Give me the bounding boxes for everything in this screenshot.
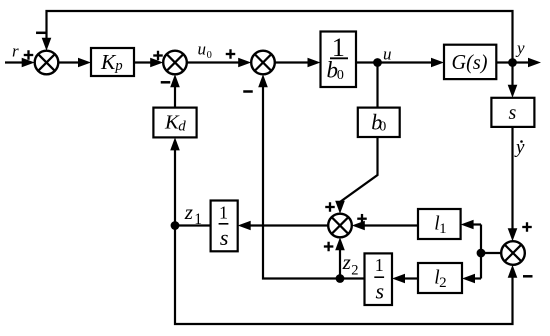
svg-text:0: 0 (379, 120, 386, 135)
svg-text:y: y (514, 137, 525, 158)
svg-text:G(s): G(s) (452, 50, 488, 74)
plus sign at summer S4 top input (325, 202, 335, 212)
plus sign at summer S5 top input (522, 222, 532, 232)
wire: Kd up to summer S2 minus input (170, 74, 180, 107)
svg-text:u: u (383, 44, 392, 63)
svg-text:z: z (342, 250, 351, 274)
svg-text:s: s (376, 278, 385, 303)
summer S1 (35, 51, 59, 75)
block integrator 1/s second (365, 253, 393, 305)
wire: integrator1 to node z1 (175, 224, 211, 226)
wire: z1 up to block Kd (170, 137, 180, 225)
minus sign at summer S2 bottom input (161, 81, 171, 84)
block b0 (358, 108, 400, 137)
wire: y node down to block s (508, 63, 518, 98)
node u0 label (198, 40, 212, 61)
wire: b0 down diagonal into summer S4 top (335, 137, 377, 214)
block 1/b0 (321, 32, 357, 88)
block l1 (418, 209, 461, 239)
svg-text:2: 2 (351, 263, 358, 279)
minus sign at summer S1 top input (36, 32, 46, 35)
wire: S2 to summer S3, signal u0 (187, 58, 251, 68)
svg-text:2: 2 (439, 275, 447, 291)
wire: 1/b0 to G(s), signal u (356, 58, 444, 68)
block integrator 1/s first (211, 201, 238, 252)
wire: y feedback from output node to summer S1 (42, 11, 513, 63)
summer S5 (501, 241, 525, 265)
plus sign at summer S3 left input (226, 49, 236, 59)
block Kp (91, 48, 134, 76)
node y-dot label (514, 137, 525, 158)
wire: Kp to summer S2 (134, 58, 163, 68)
svg-text:p: p (114, 58, 122, 74)
wire: z2 up to summer S4 (335, 237, 345, 278)
wire: integrator2 to node z2 (340, 277, 365, 279)
node E (dot) (477, 249, 486, 258)
plus sign at summer S4 bottom input (324, 242, 334, 252)
wire: E to l2 input (462, 274, 481, 284)
wire: z2 left and up to summer S3 minus input (258, 74, 340, 278)
wire: r input (5, 58, 35, 68)
wire: S1 to Kp (58, 58, 91, 68)
svg-text:u: u (198, 40, 207, 59)
node z2 (dot) (336, 274, 345, 283)
block Kd (153, 108, 196, 138)
minus sign at summer S5 bottom input (523, 275, 533, 278)
svg-text:s: s (220, 225, 229, 250)
wire: u node down to block b0 (376, 63, 378, 109)
svg-text:0: 0 (207, 50, 212, 61)
block G(s) (444, 45, 496, 79)
wire: s to summer S5, signal y-dot (508, 127, 518, 241)
svg-text:s: s (509, 102, 517, 124)
wire: l1 to summer S4 (352, 221, 418, 231)
plus sign at summer S1 left input (24, 50, 34, 60)
wire: E to l1 input (461, 220, 481, 230)
node z1 (dot) (171, 221, 180, 230)
svg-text:1: 1 (375, 255, 384, 275)
wire: z1 down along bottom and up into summer S5 minus input (175, 226, 517, 325)
node u (dot) (373, 58, 382, 67)
wire: l2 to integrator 1/s second (392, 274, 418, 284)
wire: G(s) to output y (496, 58, 541, 68)
summer S4 (328, 214, 352, 238)
plus sign at summer S2 left input (153, 51, 163, 61)
wire: S5 output to branch node E (481, 252, 501, 254)
svg-text:0: 0 (337, 68, 344, 83)
svg-text:1: 1 (219, 202, 228, 222)
minus sign at summer S3 bottom input (243, 90, 253, 93)
svg-text:1: 1 (439, 221, 447, 237)
wire: branch node E vertical (480, 225, 482, 279)
svg-text:1: 1 (194, 211, 202, 228)
wire: S4 output to integrator 1/s first (238, 221, 329, 231)
block s (491, 98, 534, 127)
summer S2 (163, 51, 187, 75)
svg-text:d: d (178, 119, 186, 135)
node y (dot) (508, 58, 517, 67)
wire: S3 to block 1/b0 (275, 58, 321, 68)
plus sign at summer S4 right input (357, 214, 367, 224)
node z2 label (342, 250, 359, 278)
svg-text:z: z (184, 200, 193, 224)
summer S3 (251, 51, 275, 75)
svg-text:r: r (12, 42, 19, 61)
svg-text:y: y (515, 39, 525, 58)
node z1 label (184, 200, 202, 228)
block l2 (418, 263, 462, 293)
